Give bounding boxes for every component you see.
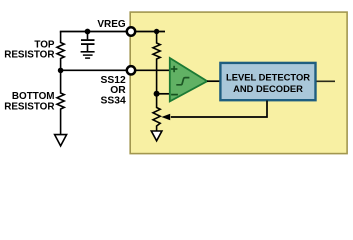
level detector block (220, 63, 315, 100)
highlighted IC region (yellow box) (130, 12, 347, 154)
pin label - (171, 94, 178, 96)
capacitor C1 lead (87, 32, 89, 40)
wire SS tap to comparator + input (61, 69, 170, 71)
wire VREG top rail (60, 31, 165, 33)
svg-text:LEVEL DETECTOR: LEVEL DETECTOR (226, 71, 310, 82)
node SS12/SS34 (open circle) (127, 66, 135, 74)
node junction dot (divider tap, left) (58, 68, 64, 74)
svg-text:RESISTOR: RESISTOR (4, 101, 54, 112)
pin label + (171, 68, 178, 70)
junction dot (cap tap on VREG rail) (85, 29, 91, 35)
resistor R_top (TOP RESISTOR) (57, 32, 64, 71)
junction dot (VREG rail to internal resistor) (154, 29, 159, 34)
capacitor C1 plates (81, 39, 95, 41)
wire output (to right) (317, 80, 336, 82)
wire feedback from decoder to internal resistor (171, 101, 267, 118)
arrowhead (feedback points at resistor) (161, 114, 170, 120)
junction dot (internal divider tap, - input) (154, 91, 160, 97)
capacitor C1 lower lead (87, 45, 89, 51)
svg-text:SS34: SS34 (100, 95, 125, 106)
node VREG (open circle) (127, 27, 135, 35)
wire - input (157, 93, 170, 95)
svg-text:RESISTOR: RESISTOR (4, 50, 54, 61)
resistor R_int_top (internal divider, inside IC) (153, 32, 160, 94)
resistor R_bottom (BOTTOM RESISTOR) (57, 70, 64, 134)
hysteresis symbol (176, 78, 189, 85)
ground (hollow triangle, left) (55, 135, 67, 146)
ground (earth symbol under capacitor) (81, 51, 95, 53)
resistor R_int_bottom (internal, inside IC) (153, 94, 160, 132)
ground (hollow triangle, internal) (151, 131, 162, 141)
wire comparator output to level detector (207, 80, 221, 82)
svg-text:VREG: VREG (97, 19, 126, 30)
op-amp comparator U1 (schmitt) (170, 58, 207, 101)
svg-text:AND DECODER: AND DECODER (233, 83, 303, 94)
